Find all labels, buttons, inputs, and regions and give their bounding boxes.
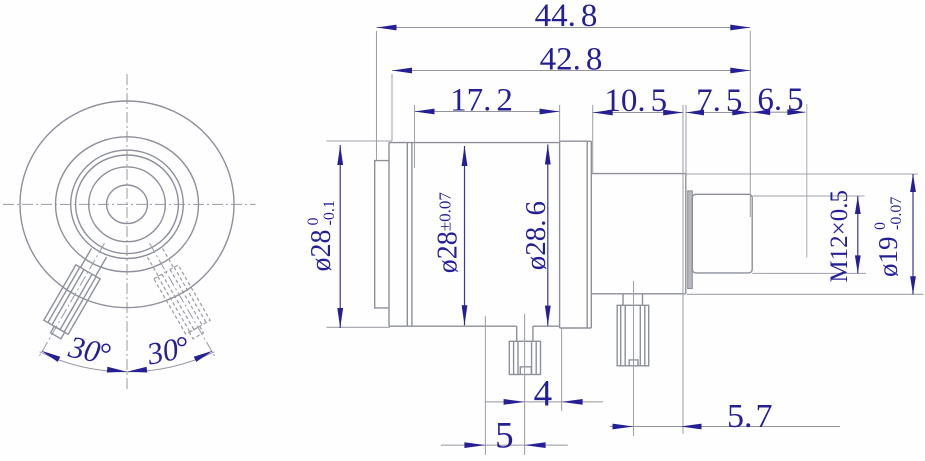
30 degree arc arrows left pair	[40, 348, 61, 362]
extension line dia19 bottom	[687, 293, 924, 295]
extension line 42.8 left	[391, 74, 393, 141]
left knob axis centerline	[39, 243, 105, 356]
focus knob axis extension	[524, 314, 526, 455]
front view outer circle (lens body OD)	[20, 101, 234, 308]
dimension 10.5	[593, 83, 684, 119]
dimension 6.5	[750, 82, 805, 118]
right knob axis centerline	[150, 243, 216, 356]
svg-text:ø28: ø28	[306, 230, 337, 272]
dimension 7.5	[686, 83, 750, 119]
svg-text:M12×0.5: M12×0.5	[826, 190, 853, 283]
svg-text:5: 5	[495, 416, 514, 457]
dimension 4	[485, 374, 603, 415]
svg-text:10.5: 10.5	[604, 83, 667, 119]
svg-text:4: 4	[534, 374, 553, 415]
dimension 5	[441, 416, 568, 457]
rear hidden edge line	[806, 104, 808, 258]
dimension M12x0.5	[826, 190, 861, 283]
svg-text:-0.07: -0.07	[888, 197, 905, 230]
svg-text:44.8: 44.8	[535, 0, 598, 34]
front view third circle	[89, 167, 166, 242]
iris knob	[617, 294, 649, 366]
extension line M12 bottom	[752, 272, 866, 274]
svg-text:ø19: ø19	[873, 237, 903, 278]
iris knob axis extension	[633, 281, 635, 436]
svg-text:±0.07: ±0.07	[436, 192, 455, 232]
dimension 5.7	[610, 398, 840, 435]
dimension 44.8	[377, 0, 751, 34]
dimension dia28 -0.1	[305, 145, 343, 328]
main barrel bottom edge	[389, 325, 560, 327]
front view inner circle (aperture)	[107, 185, 148, 224]
front view vertical centerline	[126, 74, 128, 390]
barrel groove double line	[407, 143, 412, 327]
lens front face	[388, 143, 390, 327]
extension line 17.2 right	[559, 105, 561, 141]
dimension dia19 -0.07	[872, 174, 916, 294]
extension line 44.8 / 6.5 boundary right	[749, 31, 751, 217]
extension line 44.8 left	[376, 31, 378, 160]
dimension dia28 +-0.07	[433, 146, 468, 325]
front ring of barrel	[375, 161, 389, 308]
extension line 5 left	[484, 316, 486, 455]
svg-text:42.8: 42.8	[540, 42, 603, 78]
extension line 10.5 left	[592, 105, 594, 174]
left thumb screw knob (solid)	[40, 246, 111, 341]
extension line dia19 top	[686, 173, 918, 175]
dimension 17.2	[415, 83, 560, 119]
svg-text:0: 0	[305, 218, 322, 226]
front view horizontal centerline	[3, 203, 256, 205]
focus knob	[509, 326, 540, 374]
extension line M12 top	[752, 195, 864, 197]
svg-text:ø28.6: ø28.6	[520, 201, 552, 270]
front view ring inner circle	[76, 155, 179, 254]
extension line 7.5 left	[685, 105, 687, 174]
svg-text:7.5: 7.5	[696, 83, 742, 119]
M12 thread barrel	[692, 194, 752, 273]
svg-text:-0.1: -0.1	[321, 200, 338, 225]
right thumb screw knob (hidden, dashed)	[143, 246, 214, 341]
30 degree dimension arc	[40, 352, 215, 372]
extension line 17.2 left	[414, 105, 416, 168]
svg-text:0: 0	[872, 222, 889, 230]
extension line dia28-0.1 top	[327, 140, 393, 142]
front view ring outer circle	[71, 150, 184, 258]
svg-text:30°: 30°	[65, 329, 114, 372]
extension line 10.5 right / 5.7 right (long)	[682, 105, 684, 434]
front view second circle (barrel)	[56, 137, 199, 272]
svg-text:17.2: 17.2	[450, 83, 513, 119]
svg-text:5.7: 5.7	[727, 398, 773, 435]
rear flange	[560, 141, 592, 328]
svg-text:6.5: 6.5	[757, 82, 803, 118]
dimension dia28.6	[520, 145, 552, 326]
extension line dia28-0.1 bottom	[327, 326, 391, 328]
rear barrel (dia 19)	[591, 174, 686, 294]
extension line 4 right	[561, 329, 563, 412]
dimension 42.8	[392, 42, 750, 78]
main barrel top edge	[389, 142, 560, 144]
svg-text:ø28: ø28	[433, 231, 464, 273]
washer ring	[688, 191, 693, 289]
30 degree arc arrows right pair	[194, 348, 215, 362]
svg-text:30°: 30°	[143, 329, 192, 372]
